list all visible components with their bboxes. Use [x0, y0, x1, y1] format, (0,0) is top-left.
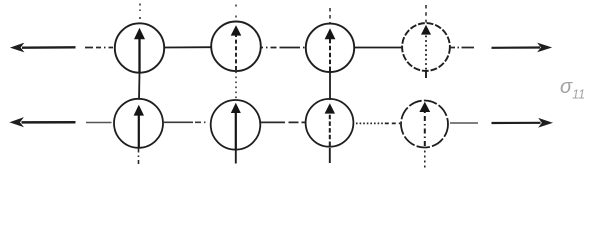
- dipole arrow in A4: [421, 25, 431, 70]
- stress arrow left row1: [12, 44, 76, 52]
- axis dash-dot below B1: [138, 149, 140, 165]
- wire B2-B3 row2: [261, 121, 306, 123]
- atom circle B4 row2 (part dashed): [401, 101, 448, 148]
- atom circle A2 row1: [211, 22, 261, 72]
- axis tick below A4: [425, 70, 427, 78]
- axis line below B2: [235, 150, 237, 164]
- axis line A1 to B1: [138, 73, 141, 100]
- wire A3-A4 row1: [354, 47, 403, 49]
- axis dotted above A1: [139, 4, 141, 23]
- axis dotted A2 to B2: [235, 72, 237, 102]
- atom circle A3 row1: [306, 24, 354, 72]
- stress arrow left row2: [11, 118, 76, 126]
- dipole arrow in B2: [231, 103, 241, 149]
- axis line below B3: [329, 148, 331, 163]
- wire A1-A2 row1: [164, 46, 212, 48]
- atom circle B3 row2: [306, 99, 354, 147]
- dipole arrow in A3: [325, 28, 336, 71]
- axis dashed above A4: [425, 5, 427, 23]
- wire dashes right row1: [451, 47, 475, 49]
- atom circle B2 row2: [211, 100, 261, 150]
- axis dotted below B4: [424, 151, 426, 168]
- stress arrow right row2: [492, 119, 552, 127]
- wire thin left row2: [86, 122, 112, 124]
- wire dash-dot left row1: [85, 47, 113, 49]
- atom circle A4 row1 (dashed): [402, 23, 450, 71]
- atom circle A1 row1: [115, 23, 164, 72]
- axis line A3 to B3: [329, 72, 331, 101]
- dipole arrow in B4: [419, 102, 430, 146]
- atom circle B1 row2: [114, 99, 163, 148]
- stress arrow right row1: [492, 44, 551, 52]
- dipole arrow in B1: [134, 105, 144, 147]
- dipole arrow in A1: [134, 28, 145, 73]
- wire B1-B2 row2: [163, 121, 208, 123]
- axis dashed above A3: [329, 8, 331, 23]
- dipole arrow in A2: [231, 25, 242, 70]
- wire dash-dot A2-A3 row1: [262, 47, 306, 49]
- axis dot above A2: [235, 5, 237, 19]
- wire thin right row2: [450, 122, 478, 124]
- wire dotted B3-B4 row2: [356, 122, 400, 124]
- dipole arrow in B3: [325, 103, 335, 146]
